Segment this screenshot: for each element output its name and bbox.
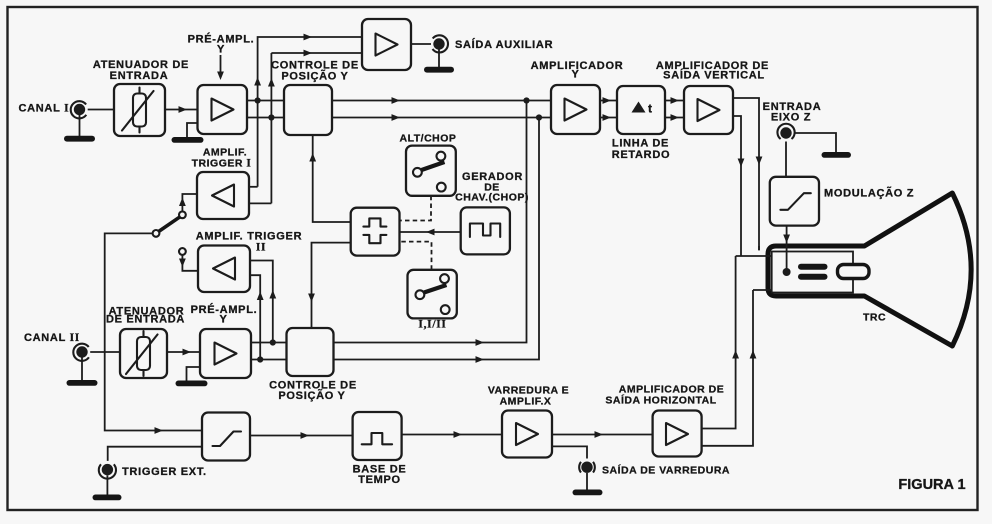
block pre-ampl Y canal I bbox=[198, 85, 248, 134]
node CRT grid junction dot bbox=[783, 268, 791, 276]
svg-text:LINHA DE: LINHA DE bbox=[612, 138, 669, 150]
svg-text:AMPLIF. TRIGGER: AMPLIF. TRIGGER bbox=[196, 231, 302, 243]
wire amplificador Y to linha de retardo lower bbox=[600, 117, 617, 119]
node dot amplificador Y lower input bbox=[536, 114, 542, 120]
connector saida de varredura bbox=[579, 462, 595, 490]
arrow up on CRT horizontal line right bbox=[750, 350, 757, 359]
symbol sigmoid trigger shaper bbox=[213, 432, 242, 447]
block alt/chop switch bbox=[406, 146, 456, 196]
wire auxiliary amp output to saida auxiliar connector bbox=[411, 43, 431, 45]
wire trigger switch common to trigger shaper input bbox=[105, 233, 202, 430]
switch I,I/II contacts and lever bbox=[416, 274, 450, 314]
svg-text:SAÍDA AUXILIAR: SAÍDA AUXILIAR bbox=[455, 38, 553, 51]
wire gerador de chaveamento to chopper bbox=[400, 231, 461, 233]
node dot amplificador Y upper input bbox=[523, 97, 529, 103]
symbol amp triangle trigger I points left bbox=[212, 185, 234, 207]
ground trigger ext bbox=[93, 495, 122, 501]
wire pre-ampl I upper output to controle posicao Y I bbox=[247, 100, 284, 102]
wire trigger I input lower stub bbox=[247, 202, 272, 204]
node dot pre-ampl II lower tap bbox=[257, 356, 263, 362]
wire trigger switch contact I to amplif trigger I bbox=[182, 194, 197, 212]
symbol pulse base de tempo bbox=[362, 433, 392, 444]
arrow down from pre-ampl Y label bbox=[217, 72, 224, 81]
block amplif trigger II bbox=[198, 246, 250, 293]
arrow into varredura bbox=[454, 431, 463, 438]
switch trigger source selector bbox=[153, 211, 186, 255]
block linha de retardo delta t bbox=[617, 86, 665, 134]
wire controle posicao Y II lower output to amplificador Y input bbox=[334, 118, 540, 360]
arrow down on CRT vertical line left bbox=[738, 159, 745, 168]
wire amplificador Y to linha de retardo upper bbox=[600, 100, 617, 102]
svg-text:Y: Y bbox=[217, 44, 225, 56]
symbol amp triangle trigger II points left bbox=[213, 258, 235, 280]
wire controle posicao Y II upper output to amplificador Y input bbox=[334, 101, 527, 343]
svg-text:SAÍDA DE VARREDURA: SAÍDA DE VARREDURA bbox=[602, 464, 730, 477]
svg-text:I,I/II: I,I/II bbox=[418, 319, 446, 331]
svg-text:II: II bbox=[256, 242, 266, 254]
connector canal II bbox=[73, 344, 89, 380]
svg-text:TRC: TRC bbox=[863, 312, 886, 324]
CRT tube outline TRC bbox=[768, 193, 971, 346]
arrow up on aux bus A bbox=[254, 77, 261, 86]
wire trigger II input upper tap bbox=[250, 261, 273, 343]
ground canal I bbox=[64, 136, 95, 142]
symbol amp triangle varredura bbox=[516, 423, 538, 445]
svg-text:EIXO Z: EIXO Z bbox=[771, 112, 811, 124]
arrow into trigger shaper bbox=[155, 427, 164, 434]
wire varredura lower output to saida de varredura connector bbox=[552, 446, 587, 458]
svg-text:ENTRADA: ENTRADA bbox=[110, 70, 169, 82]
svg-text:POSIÇÃO Y: POSIÇÃO Y bbox=[281, 70, 348, 83]
symbol amp triangle amplificador Y bbox=[565, 99, 587, 121]
block atenuador de entrada canal I bbox=[114, 84, 165, 136]
svg-text:SAÍDA VERTICAL: SAÍDA VERTICAL bbox=[663, 69, 765, 82]
arrow on controle I lower output bbox=[392, 114, 401, 121]
symbol amp triangle pre-ampl II bbox=[215, 343, 237, 365]
wire entrada eixo Z to ground bbox=[794, 133, 836, 152]
block amplificador Y bbox=[551, 85, 600, 134]
svg-text:Y: Y bbox=[219, 314, 227, 326]
symbol amp triangle saida vertical bbox=[698, 99, 720, 121]
arrow into linha de retardo lower bbox=[603, 114, 612, 121]
svg-text:TEMPO: TEMPO bbox=[358, 474, 401, 486]
svg-text:POSIÇÃO Y: POSIÇÃO Y bbox=[278, 389, 345, 402]
arrow into horizontal output amp bbox=[595, 431, 604, 438]
wire node B horizontal run to auxiliary amp bbox=[271, 52, 362, 54]
wire horizontal amp upper entry into CRT bbox=[736, 255, 772, 257]
arrow on controle II upper output bbox=[476, 339, 485, 346]
switch alt/chop contacts and lever bbox=[413, 152, 446, 192]
wire canal II input to attenuator II bbox=[90, 351, 120, 353]
CRT inner gun assembly rectangle bbox=[772, 252, 853, 293]
wire vertical amp line entering CRT neck bbox=[758, 246, 760, 250]
svg-text:RETARDO: RETARDO bbox=[612, 149, 670, 161]
svg-text:TRIGGER EXT.: TRIGGER EXT. bbox=[122, 466, 207, 478]
arrow up on aux bus B bbox=[268, 78, 275, 87]
ground entrada eixo Z bbox=[822, 152, 852, 158]
svg-text:Y: Y bbox=[571, 69, 579, 81]
wire trigger II input lower tap bbox=[250, 275, 260, 359]
symbol delta t delay bbox=[632, 102, 653, 116]
block amplif trigger I bbox=[197, 172, 249, 219]
wire trigger I input upper stub bbox=[247, 186, 258, 188]
wire linha de retardo to amplificador saida vertical lower bbox=[665, 117, 684, 119]
wire attenuator II to pre-ampl II bbox=[167, 351, 200, 353]
symbol sigmoid modulacao Z bbox=[780, 193, 810, 210]
symbol amp triangle saida horizontal bbox=[666, 423, 688, 445]
svg-text:AMPLIF.X: AMPLIF.X bbox=[500, 396, 552, 408]
svg-text:SAÍDA HORIZONTAL: SAÍDA HORIZONTAL bbox=[605, 394, 716, 407]
arrow down from modulacao Z to CRT bbox=[783, 235, 790, 244]
svg-text:DE ENTRADA: DE ENTRADA bbox=[106, 314, 185, 326]
wire linha de retardo to amplificador saida vertical upper bbox=[665, 100, 684, 102]
block gerador de chaveamento chop bbox=[461, 207, 510, 254]
wire base de tempo to varredura bbox=[402, 434, 502, 436]
block amplificador de saida vertical bbox=[684, 86, 733, 134]
wire controle posicao Y I upper output to amplificador Y bbox=[332, 100, 551, 102]
arrow up into trigger switch contact I line bbox=[179, 198, 186, 207]
ground pre-ampl I bbox=[172, 123, 204, 143]
ground saida de varredura bbox=[573, 490, 603, 496]
arrow down on trigger switch contact II line bbox=[179, 259, 186, 268]
wire pre-ampl Y label arrow line bbox=[220, 55, 222, 74]
block atenuador de entrada canal II bbox=[120, 329, 167, 378]
arrow into vertical output amp lower bbox=[671, 114, 680, 121]
symbol amp triangle pre-ampl I bbox=[212, 99, 234, 121]
block controle de posicao Y canal II bbox=[287, 328, 334, 376]
wire node B vertical bus to auxiliary amp lower bbox=[270, 53, 272, 203]
ground saida auxiliar bbox=[424, 67, 454, 73]
svg-text:MODULAÇÃO Z: MODULAÇÃO Z bbox=[824, 187, 914, 200]
wire trigger ext connector stem bbox=[108, 447, 202, 461]
arrow up on trigger II upper tap bbox=[269, 290, 276, 299]
svg-text:CANAL I: CANAL I bbox=[19, 103, 70, 115]
wire node A vertical bus to auxiliary amp upper bbox=[258, 37, 362, 187]
symbol square wave gerador bbox=[470, 224, 500, 238]
wire chopper to controle posicao Y II bbox=[312, 243, 351, 328]
connector canal I bbox=[71, 101, 87, 136]
symbol attenuator resistor canal I bbox=[122, 88, 154, 133]
wire vertical output amp upper to CRT vertical plate bbox=[733, 98, 759, 250]
wire entrada eixo Z to modulacao Z bbox=[785, 142, 787, 177]
arrow into linha de retardo upper bbox=[603, 97, 612, 104]
arrow up on CRT horizontal line left bbox=[732, 350, 739, 359]
arrow into pre-ampl II bbox=[183, 349, 192, 356]
wire horizontal amp lower output to CRT bbox=[702, 290, 753, 446]
symbol chopper cross lower half bbox=[363, 235, 386, 243]
arrow down on CRT vertical line right bbox=[756, 157, 763, 166]
symbol amp triangle auxiliary bbox=[376, 34, 398, 56]
wire horizontal amp upper output to CRT bbox=[702, 256, 736, 429]
wire controle posicao Y I to chopper bbox=[313, 135, 351, 222]
block base de tempo bbox=[353, 412, 402, 460]
wire pre-ampl II upper output to controle posicao Y II bbox=[251, 342, 287, 344]
wire horizontal amp lower entry into CRT bbox=[753, 289, 772, 291]
svg-text:CANAL II: CANAL II bbox=[24, 332, 80, 344]
block varredura e amplif X bbox=[502, 411, 552, 458]
arrow into vertical output amp upper bbox=[671, 97, 680, 104]
wire modulacao Z output into CRT grid bbox=[786, 226, 788, 272]
connector saida auxiliar bbox=[433, 35, 449, 67]
block pre-ampl Y canal II bbox=[200, 329, 251, 378]
arrow up on trigger II lower tap bbox=[257, 292, 264, 301]
arrow down into controle II top bbox=[308, 294, 315, 303]
node dot pre-ampl I lower tap bbox=[268, 114, 274, 120]
CRT deflection plate lower bbox=[798, 274, 828, 280]
wire canal I input to attenuator bbox=[88, 109, 114, 111]
connector trigger ext bbox=[99, 464, 116, 495]
symbol chopper cross upper half bbox=[363, 218, 386, 226]
wire dashed I,I/II switch to chopper bbox=[400, 242, 432, 270]
CRT electron gun bbox=[838, 265, 870, 279]
arrow on controle II lower output bbox=[476, 356, 485, 363]
wire varredura to amplificador saida horizontal bbox=[552, 434, 652, 436]
wire dashed alt/chop switch to chopper bbox=[400, 196, 432, 221]
svg-text:ALT/CHOP: ALT/CHOP bbox=[400, 133, 457, 145]
node dot pre-ampl I upper tap bbox=[255, 97, 261, 103]
svg-text:TRIGGER I: TRIGGER I bbox=[192, 158, 252, 170]
block modulacao Z bbox=[770, 177, 819, 226]
block controle de posicao Y canal I bbox=[284, 85, 332, 135]
CRT deflection plate upper bbox=[798, 264, 828, 270]
arrow up into controle I bottom bbox=[309, 153, 316, 162]
block I,I/II switch bbox=[408, 270, 457, 319]
wire controle posicao Y I lower output to amplificador Y bbox=[332, 117, 551, 119]
block amplificador de saida horizontal bbox=[653, 411, 702, 457]
block chopper bbox=[351, 208, 400, 256]
arrow into base de tempo bbox=[301, 432, 310, 439]
arrow on controle I upper output bbox=[392, 97, 401, 104]
symbol attenuator resistor canal II bbox=[126, 331, 158, 376]
arrow left from gerador into chopper bbox=[426, 229, 435, 236]
arrow into auxiliary amp upper bbox=[304, 34, 313, 41]
wire pre-ampl II lower output to controle posicao Y II bbox=[251, 359, 287, 361]
wire pre-ampl I lower output to controle posicao Y I bbox=[247, 117, 284, 119]
block trigger shaper bbox=[202, 413, 250, 461]
wire attenuator I to pre-ampl I bbox=[165, 109, 198, 111]
wire vertical output amp lower to CRT vertical plate bbox=[733, 116, 741, 256]
wire trigger switch contact II to amplif trigger II bbox=[182, 255, 198, 271]
svg-text:CHAV.(CHOP): CHAV.(CHOP) bbox=[455, 192, 529, 204]
arrow into auxiliary amp lower bbox=[304, 50, 313, 57]
ground canal II bbox=[67, 380, 98, 386]
node dot pre-ampl II upper tap bbox=[270, 339, 276, 345]
svg-text:FIGURA 1: FIGURA 1 bbox=[898, 477, 965, 493]
block auxiliary amplifier bbox=[362, 19, 411, 70]
connector entrada eixo Z bbox=[777, 124, 794, 139]
svg-text:t: t bbox=[648, 102, 652, 116]
ground pre-ampl II bbox=[176, 367, 208, 386]
wire trigger shaper to base de tempo bbox=[250, 435, 353, 437]
arrow into pre-ampl I bbox=[179, 106, 188, 113]
